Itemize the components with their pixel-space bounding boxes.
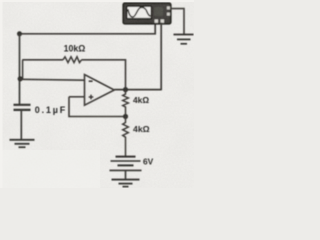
wire: top probe wire from node A to scope left terminal — [20, 23, 156, 34]
wire: feedback jog up from node B — [22, 60, 24, 79]
resistor R2 4k (upper, vertical zigzag) — [123, 90, 129, 117]
scan noise overlay — [0, 0, 194, 188]
resistor R3 4k (lower, vertical zigzag) — [123, 117, 129, 157]
oscilloscope body — [123, 3, 171, 24]
wire: capacitor to left ground — [20, 111, 22, 140]
node C junction dot (output node) — [123, 87, 128, 92]
wire: battery to bottom ground — [125, 170, 127, 179]
capacitor C1 bottom plate — [14, 109, 31, 111]
op-amp U1 triangle — [85, 75, 115, 106]
ground (bottom left) — [10, 139, 35, 141]
battery V1 plate 2 (long) — [111, 160, 141, 162]
op-amp plus sign — [89, 96, 94, 98]
battery V1 plate 3 (short) — [118, 164, 134, 166]
oscilloscope knob 2 — [167, 13, 170, 16]
wire: inverting input wire from node B to op-amp — [20, 78, 85, 81]
wire: non-inverting loop down and right to divider node — [69, 97, 126, 117]
paper background — [0, 0, 194, 188]
wire: op-amp output to scope branch — [114, 89, 161, 91]
battery V1 6V plate 1 (short) — [116, 156, 136, 158]
light scan edges — [0, 0, 194, 2]
ground (bottom, battery return) — [112, 179, 140, 181]
node B junction dot (inverting input node) — [18, 76, 23, 81]
op-amp minus sign — [89, 80, 93, 82]
node D junction dot (divider tap) — [123, 114, 128, 119]
ground (top right, chassis of scope) — [174, 34, 194, 36]
oscilloscope knob 1 — [167, 6, 170, 9]
capacitor C1 0.1uF top plate — [14, 104, 31, 106]
oscilloscope screen with sine trace — [127, 6, 152, 18]
wire: scope right terminal down to output wire — [160, 23, 162, 91]
resistor R1 10k (feedback, zigzag) — [63, 57, 82, 63]
oscilloscope control panel patch — [154, 7, 163, 16]
wire: non-inverting input wire — [69, 96, 85, 98]
wire: scope chassis to top-right ground — [171, 9, 184, 35]
oscilloscope terminal left — [155, 19, 158, 22]
wire: left vertical from node A down to capacitor — [19, 34, 21, 104]
battery V1 plate 4 (long) — [110, 169, 142, 171]
node A junction dot (top left) — [17, 31, 22, 36]
wire: feedback wire right segment down to output node — [82, 60, 126, 90]
oscilloscope terminal right — [161, 19, 164, 22]
wire: feedback wire left segment — [22, 59, 63, 61]
